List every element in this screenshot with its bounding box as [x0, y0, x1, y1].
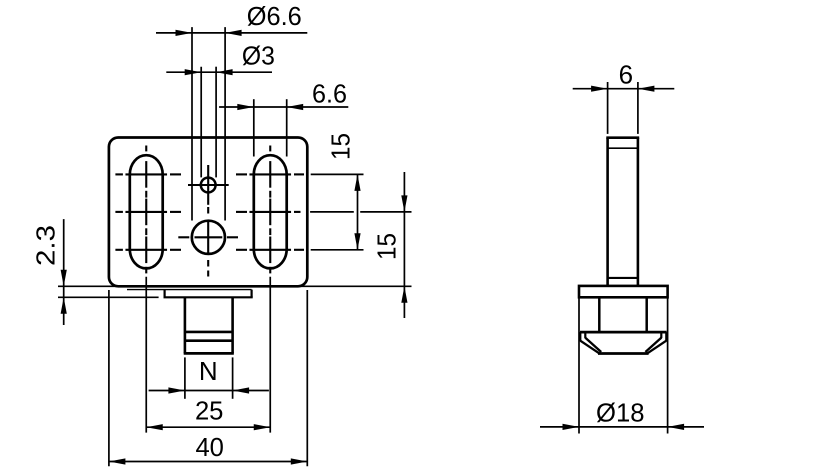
nut head bottom [598, 352, 649, 355]
center vertical dashes [207, 207, 209, 214]
flange top edge line [127, 289, 252, 291]
side view stem [606, 138, 609, 287]
nut head chamfers [580, 341, 599, 354]
dim 15 B: dimension line [403, 172, 405, 318]
dim Ø18: extension lines [578, 299, 580, 434]
big hole Ø6.6 [192, 221, 225, 254]
svg-text:6: 6 [619, 60, 633, 90]
dim 2.3: dimension line [63, 219, 65, 325]
stem chamfer line [608, 147, 638, 149]
small hole Ø3 [201, 178, 216, 193]
left slot (obround hole) [130, 155, 163, 268]
dim Ø18: dimension line [540, 426, 704, 428]
small hole cross [188, 184, 229, 186]
dim 6.6: dimension line [219, 106, 348, 108]
dim N: extension lines [184, 357, 186, 398]
dim 15 B: extension line (broken at dim A crossing) [310, 211, 354, 213]
flange below body [164, 290, 166, 298]
dim Ø6.6: dimension line [156, 32, 307, 34]
svg-text:6.6: 6.6 [312, 78, 347, 108]
side view flange disc [579, 286, 668, 297]
right slot (obround hole) [254, 155, 287, 268]
dim 6: dimension line [573, 88, 675, 90]
dim 25: extension lines [145, 277, 147, 433]
slot vertical centerlines [145, 146, 147, 152]
svg-text:2.3: 2.3 [30, 225, 60, 266]
dim N: dimension line [149, 390, 269, 392]
centerline crosses: slot horizontal rows [125, 173, 167, 175]
dim 15 A: dimension line [357, 174, 359, 249]
dim Ø3: extension lines [200, 67, 202, 178]
dim 25: dimension line [146, 426, 270, 428]
svg-text:25: 25 [195, 395, 224, 425]
nut head top [580, 331, 667, 334]
dim 15 A: extension lines [311, 173, 364, 175]
svg-text:15: 15 [372, 233, 402, 260]
dim 6.6: extension lines [253, 99, 255, 156]
dim 2.3: extension lines [58, 285, 412, 287]
svg-text:15: 15 [326, 133, 356, 160]
svg-text:Ø6.6: Ø6.6 [247, 1, 302, 31]
svg-text:40: 40 [195, 432, 224, 462]
dim 40: dimension line [109, 461, 307, 463]
big hole cross [195, 236, 223, 238]
svg-text:Ø3: Ø3 [242, 41, 275, 71]
svg-text:N: N [199, 356, 218, 386]
body outline: rounded square plate [109, 138, 307, 287]
horizontal centerline dashes [115, 173, 123, 175]
dim 6: extension lines [607, 82, 609, 134]
dim Ø3: dimension line [166, 71, 272, 73]
dim Ø6.6: extension lines [191, 27, 193, 220]
dim 40: extension lines [108, 290, 110, 466]
thread relief lines [185, 331, 233, 334]
nut head corner edges [579, 332, 581, 341]
svg-text:Ø18: Ø18 [596, 397, 645, 427]
nut neck [598, 297, 601, 332]
threaded stem, front view [184, 297, 187, 353]
stem lower line [608, 277, 638, 279]
